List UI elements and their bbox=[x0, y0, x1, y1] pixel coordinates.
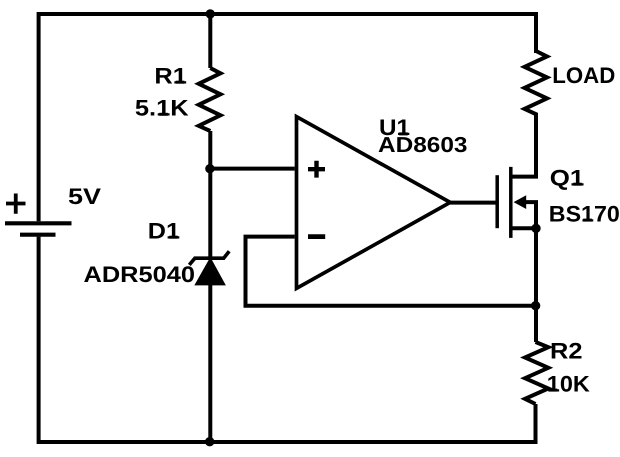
wire bottom rail bbox=[39, 237, 536, 442]
node D: feedback/source junction bbox=[531, 301, 540, 310]
node B: plus-input junction bbox=[205, 164, 214, 173]
battery V1 5V bbox=[5, 194, 72, 235]
resistor LOAD bbox=[525, 51, 548, 116]
wire op-amp output to gate bbox=[450, 201, 497, 205]
wire source stub bbox=[511, 228, 536, 342]
svg-text:R1: R1 bbox=[154, 64, 187, 89]
svg-text:BS170: BS170 bbox=[549, 201, 620, 226]
wire body stub and source connection bbox=[522, 202, 536, 228]
svg-text:LOAD: LOAD bbox=[552, 63, 615, 88]
resistor R2 bbox=[525, 342, 548, 404]
resistor R1 bbox=[199, 68, 221, 131]
svg-text:Q1: Q1 bbox=[550, 166, 585, 191]
wire top rail bbox=[39, 14, 536, 221]
svg-text:5V: 5V bbox=[68, 184, 101, 209]
wire feedback: minus input down and right to source node bbox=[246, 237, 536, 306]
wire op-amp plus input bbox=[210, 167, 294, 171]
svg-text:AD8603: AD8603 bbox=[378, 132, 468, 157]
node C: bottom junction bbox=[205, 437, 214, 446]
wire zener anode to bottom rail bbox=[208, 285, 212, 443]
wire drain: right rail down to MOSFET drain stub bbox=[511, 116, 536, 177]
wire R1 bottom to zener bbox=[208, 131, 212, 257]
transistor Q1 MOSFET bbox=[497, 167, 526, 238]
svg-text:ADR5040: ADR5040 bbox=[84, 262, 196, 287]
svg-text:10K: 10K bbox=[547, 371, 591, 396]
node A: top junction bbox=[206, 9, 215, 18]
svg-text:5.1K: 5.1K bbox=[135, 96, 190, 121]
op-amp U1 bbox=[297, 117, 451, 289]
svg-text:R2: R2 bbox=[550, 339, 583, 364]
zener diode D1 bbox=[189, 251, 229, 284]
wire R1 top lead bbox=[208, 14, 212, 68]
node E: source stub junction bbox=[531, 224, 540, 233]
svg-text:D1: D1 bbox=[148, 219, 180, 244]
